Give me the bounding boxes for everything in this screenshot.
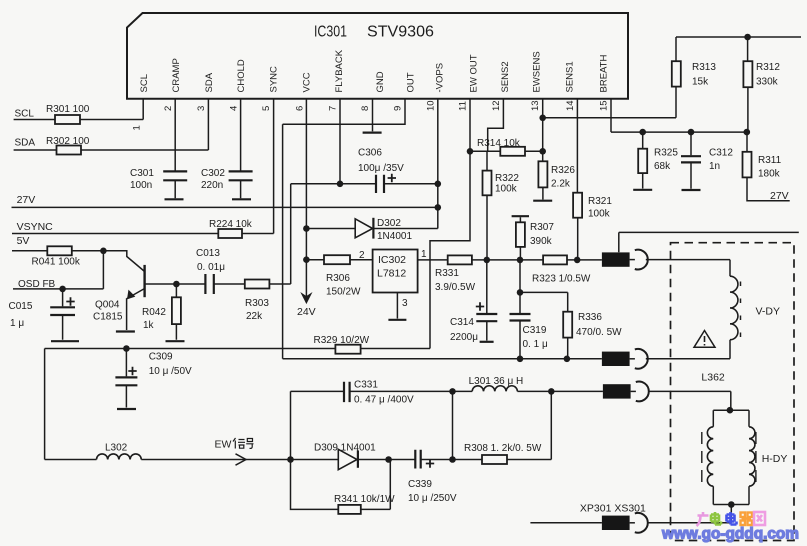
svg-text:4: 4	[229, 106, 240, 111]
svg-text:SCL: SCL	[15, 109, 35, 120]
wire SDA net with pin 3 lead	[14, 99, 209, 150]
wire R322 leads	[486, 151, 488, 260]
svg-text:BREATH: BREATH	[598, 55, 609, 93]
resistor R312	[743, 61, 780, 87]
svg-text:C301: C301	[130, 168, 154, 179]
wire connector2 to V-DY bottom	[646, 340, 730, 359]
capacitor C312	[681, 148, 733, 173]
IC IC301 STV9306 body outline	[127, 13, 628, 99]
ground for C309	[117, 408, 136, 410]
svg-text:R301 100: R301 100	[46, 104, 90, 115]
wire pin 14 SENS1 lead	[576, 99, 578, 260]
node junction R308-L301 riser top	[548, 388, 555, 395]
wire R042 leads	[175, 284, 177, 340]
node junction R307-C319	[517, 257, 524, 264]
node junction VCC-D302	[303, 225, 310, 232]
dashed box deflection yoke assembly	[671, 243, 795, 541]
node junction pin13-R314	[539, 148, 546, 155]
wire OSD FB line up to 5V node	[13, 251, 103, 289]
svg-text:R312: R312	[756, 62, 780, 73]
svg-text:D309 1N4001: D309 1N4001	[314, 443, 376, 454]
wire R313 top to R312 top rail	[676, 37, 801, 61]
svg-text:C302: C302	[201, 168, 225, 179]
wire EW signal line	[141, 391, 551, 459]
svg-text:SDA: SDA	[15, 137, 36, 148]
node junction EW drive	[287, 456, 294, 463]
svg-text:C312: C312	[709, 148, 733, 159]
svg-text:R224 10k: R224 10k	[209, 219, 253, 230]
svg-text:100μ /35V: 100μ /35V	[358, 163, 404, 174]
wire C309 leads	[125, 349, 127, 408]
connector plug-jack row 2 vertical return	[602, 349, 648, 369]
wire SCL net with pin 1 lead	[14, 99, 144, 120]
svg-text:22k: 22k	[246, 311, 263, 322]
wire R314 row pin11 to pin13	[470, 150, 543, 152]
svg-text:68k: 68k	[654, 161, 671, 172]
watermark site name glyphs	[697, 512, 766, 526]
svg-text:C309: C309	[149, 352, 173, 363]
svg-text:C331: C331	[354, 380, 378, 391]
wire R312 leads	[747, 37, 749, 132]
svg-text:1N4001: 1N4001	[377, 231, 412, 242]
node junction EWSENS-BREATH row	[539, 115, 546, 122]
node junction C319-R336 tap	[517, 289, 524, 296]
node junction C339 right	[449, 456, 456, 463]
wire base node row	[145, 283, 291, 285]
node junction C319 bottom	[517, 356, 524, 363]
svg-text:R311: R311	[758, 155, 782, 166]
inductor L302	[97, 443, 142, 460]
transistor Q2 Q004 C1815	[93, 251, 145, 330]
svg-text:27V: 27V	[17, 194, 36, 206]
svg-text:0. 1 μ: 0. 1 μ	[523, 339, 548, 350]
wire left drop to EW line	[45, 349, 97, 460]
svg-text:24V: 24V	[297, 306, 316, 318]
node junction C306 right on -VOPS line	[435, 181, 442, 188]
resistor R321	[573, 193, 612, 220]
svg-text:L7812: L7812	[377, 268, 406, 280]
svg-text:R322: R322	[495, 173, 519, 184]
svg-text:H-DY: H-DY	[762, 453, 788, 465]
inductor H-DY horizontal yoke coils	[702, 410, 788, 504]
node junction R322-C314	[484, 257, 491, 264]
ground for R326	[533, 200, 552, 202]
warning triangle	[694, 331, 715, 348]
svg-text:D302: D302	[377, 218, 401, 229]
svg-text:EW OUT: EW OUT	[469, 54, 480, 92]
svg-text:R313: R313	[692, 62, 716, 73]
svg-text:470/0. 5W: 470/0. 5W	[576, 327, 622, 338]
wire VCC to D302 anode and 27V node	[306, 228, 437, 230]
resistor R314	[477, 138, 525, 156]
wire R326 lower lead	[542, 187, 544, 199]
watermark url text	[661, 526, 799, 543]
wire IC302 output node to connector 1	[418, 259, 602, 261]
svg-text:390k: 390k	[530, 236, 553, 247]
wire EWSENS to R313 bottom	[543, 117, 676, 119]
svg-text:R308 1. 2k/0. 5W: R308 1. 2k/0. 5W	[464, 443, 542, 454]
wire C314 leads	[486, 260, 488, 341]
svg-text:R336: R336	[578, 312, 602, 323]
wire pin 6 VCC line down to 24V arrow	[305, 99, 307, 302]
wire R311 leads to 27V	[747, 132, 790, 201]
wire pin 4 CHOLD lead	[240, 99, 242, 171]
svg-text:3.9/0.5W: 3.9/0.5W	[435, 282, 476, 293]
svg-text:10 μ /50V: 10 μ /50V	[149, 366, 192, 377]
resistor R326	[538, 161, 575, 189]
svg-text:EWSENS: EWSENS	[531, 51, 542, 92]
svg-text:SYNC: SYNC	[269, 66, 280, 93]
svg-text:SCL: SCL	[139, 74, 150, 92]
svg-text:15k: 15k	[692, 77, 709, 88]
wire 27V rail	[12, 206, 438, 208]
svg-text:FLYBACK: FLYBACK	[334, 49, 345, 92]
svg-text:R341 10k/1W: R341 10k/1W	[334, 494, 395, 505]
IC301 rotated pin numbers 1-15	[132, 100, 610, 130]
resistor R306	[324, 255, 361, 297]
node junction R336 bottom	[564, 356, 571, 363]
svg-text:27V: 27V	[770, 190, 789, 202]
node junction pin7-C306	[337, 181, 344, 188]
svg-text:C015: C015	[9, 301, 33, 312]
node label EW signal	[215, 438, 254, 451]
svg-text:CRAMP: CRAMP	[171, 58, 182, 92]
svg-text:C339: C339	[408, 479, 432, 490]
svg-text:220n: 220n	[201, 180, 223, 191]
svg-text:IC301: IC301	[314, 24, 347, 41]
wire VCC to R306 to IC302 pin2	[306, 259, 372, 261]
svg-text:XP301 XS301: XP301 XS301	[580, 502, 646, 514]
ground bar for C314	[480, 341, 494, 343]
svg-text:R323 1/0.5W: R323 1/0.5W	[532, 274, 591, 285]
label L362	[701, 371, 725, 383]
node junction pin11-R314	[467, 148, 474, 155]
capacitor C015	[9, 297, 76, 329]
node label SDA	[15, 137, 36, 148]
svg-text:8: 8	[360, 106, 371, 111]
node junction C339-L301 riser top	[449, 388, 456, 395]
node label OSD FB	[18, 279, 56, 290]
resistor R336	[563, 312, 622, 338]
svg-text:R325: R325	[654, 148, 678, 159]
wire OUT rail left	[45, 348, 430, 350]
capacitor C314	[450, 302, 497, 343]
IC IC302 L7812 regulator	[359, 249, 427, 309]
resistor R341	[334, 494, 395, 514]
node label 27V right	[770, 190, 789, 202]
wire pin 10 -VOPS lead	[437, 99, 439, 229]
wire 5V rail	[12, 250, 103, 252]
svg-text:330k: 330k	[756, 77, 779, 88]
svg-text:15: 15	[599, 100, 610, 111]
svg-text:R303: R303	[245, 298, 269, 309]
wire pin 15 BREATH lead and sense rail	[611, 99, 747, 132]
resistor R041	[32, 246, 81, 267]
wire OUT to connector 2	[283, 358, 602, 360]
svg-text:5V: 5V	[17, 235, 30, 247]
ground for C301	[165, 198, 184, 200]
svg-text:R302 100: R302 100	[46, 136, 90, 147]
wire R307 leads	[519, 217, 521, 260]
wire R336 bottom lead	[567, 338, 569, 359]
svg-text:14: 14	[565, 100, 576, 111]
svg-text:-VOPS: -VOPS	[435, 63, 446, 93]
svg-text:0. 47 μ /400V: 0. 47 μ /400V	[354, 395, 414, 406]
resistor R224	[209, 219, 253, 238]
diode D302 1N4001	[355, 218, 412, 242]
resistor R322	[483, 171, 520, 196]
svg-text:10: 10	[425, 100, 436, 111]
wire pin 8 GND lead	[372, 99, 374, 132]
svg-text:L301 36 μ H: L301 36 μ H	[469, 376, 524, 387]
svg-text:OUT: OUT	[405, 72, 416, 92]
svg-text:5: 5	[261, 106, 272, 111]
wire connector1 to V-DY top	[646, 260, 730, 277]
ground for C312	[682, 189, 701, 191]
node label VSYNC	[17, 221, 54, 233]
ground for C015	[51, 340, 79, 342]
resistor R301	[46, 104, 90, 124]
node junction R325 top	[639, 129, 646, 136]
svg-text:180k: 180k	[758, 169, 781, 180]
resistor R307	[516, 222, 554, 247]
svg-text:13: 13	[530, 100, 541, 111]
svg-text:100k: 100k	[588, 209, 611, 220]
24V supply arrow	[297, 294, 316, 319]
wire riser C339 node to L301 node	[452, 391, 454, 459]
svg-text:2: 2	[163, 106, 174, 111]
svg-text:VSYNC: VSYNC	[17, 221, 54, 233]
node junction 5V collector	[100, 248, 107, 255]
svg-text:2200μ: 2200μ	[450, 332, 478, 343]
svg-text:C319: C319	[523, 325, 547, 336]
svg-text:R041 100k: R041 100k	[32, 257, 81, 268]
svg-text:R042: R042	[142, 307, 166, 318]
svg-text:C1815: C1815	[93, 312, 123, 323]
svg-text:100k: 100k	[495, 184, 518, 195]
svg-text:150/2W: 150/2W	[326, 287, 361, 298]
ground bar above R307	[512, 215, 529, 217]
svg-text:C306: C306	[358, 148, 382, 159]
ground for IC301 pin 8	[363, 132, 382, 134]
wire R303 node up to C306 node	[290, 184, 292, 284]
diode D309 1N4001	[314, 443, 376, 470]
svg-text:www.go-gddq.com: www.go-gddq.com	[661, 526, 799, 543]
resistor R325	[638, 148, 678, 174]
svg-text:L302: L302	[105, 443, 128, 454]
svg-text:0. 01μ: 0. 01μ	[197, 262, 225, 273]
connector plug-jack row 3 EW to H-DY	[603, 382, 649, 402]
svg-text:SENS2: SENS2	[500, 61, 511, 92]
svg-text:2: 2	[359, 250, 365, 261]
wire C015 lead	[62, 289, 64, 340]
ground for R325	[633, 189, 652, 191]
resistor R331	[435, 255, 476, 293]
wire R313 bottom lead	[675, 87, 678, 118]
wire XP301 line	[530, 506, 731, 523]
svg-text:3: 3	[402, 298, 408, 309]
capacitor C339	[408, 450, 457, 504]
svg-text:CHOLD: CHOLD	[236, 59, 247, 92]
svg-text:SDA: SDA	[204, 72, 215, 92]
svg-text:6: 6	[294, 106, 305, 111]
svg-text:L362: L362	[701, 371, 725, 383]
resistor R323	[532, 255, 591, 284]
wire connector3 to H-DY top	[648, 391, 731, 410]
wire pin 11 EW OUT down to R329	[430, 99, 470, 349]
svg-text:100n: 100n	[130, 180, 152, 191]
svg-text:C314: C314	[450, 317, 474, 328]
ground for Q004 emitter	[116, 330, 135, 332]
EW arrow on wire	[236, 454, 247, 465]
svg-text:R314 10k: R314 10k	[477, 138, 521, 149]
wire connector1 top riser to breath line	[619, 232, 799, 252]
node label 27V left	[17, 194, 36, 206]
node junction C312 top	[688, 129, 695, 136]
wire pin 9 OUT feed down left side	[283, 99, 405, 359]
resistor R313	[672, 61, 717, 87]
capacitor C309	[115, 352, 192, 386]
node junction R042 top	[173, 281, 180, 288]
capacitor C302	[201, 168, 253, 198]
svg-text:9: 9	[393, 106, 404, 111]
connector plug-jack row 1 vertical out	[602, 250, 648, 270]
capacitor C331	[344, 380, 414, 406]
svg-text:V-DY: V-DY	[756, 306, 781, 318]
wire C312 leads	[690, 132, 692, 189]
ground for R042	[166, 340, 185, 342]
resistor R302	[46, 136, 90, 155]
svg-text:1 μ: 1 μ	[10, 318, 24, 329]
resistor R042	[142, 297, 181, 331]
node junction H-DY bottom	[728, 501, 735, 508]
resistor R308	[464, 443, 542, 464]
wire R325 leads	[642, 132, 644, 188]
node label SCL	[15, 109, 35, 120]
node label 5V	[17, 235, 30, 247]
svg-text:SENS1: SENS1	[565, 61, 576, 92]
svg-text:R329 10/2W: R329 10/2W	[314, 335, 370, 346]
node junction VCC-R306	[303, 256, 310, 263]
wire pin 2 CRAMP lead	[174, 99, 176, 171]
svg-text:2.2k: 2.2k	[551, 179, 571, 190]
resistor R311	[743, 152, 782, 180]
connector label XP301 XS301	[580, 502, 646, 514]
capacitor C301	[130, 168, 187, 198]
resistor R329	[314, 335, 370, 354]
svg-text:R307: R307	[530, 222, 554, 233]
node junction H-DY top	[727, 407, 734, 414]
svg-text:12: 12	[491, 100, 502, 111]
svg-text:IC302: IC302	[378, 254, 406, 266]
svg-text:R306: R306	[326, 273, 350, 284]
svg-text:R331: R331	[435, 268, 459, 279]
node junction -VOPS 27V rail	[435, 204, 442, 211]
node junction C015 tap	[59, 286, 66, 293]
svg-text:1k: 1k	[143, 320, 155, 331]
node junction D309 cathode	[385, 456, 392, 463]
wire C331 to L301 to connector 3	[350, 390, 603, 392]
node junction R312 top	[744, 34, 751, 41]
node junction R321 bottom	[574, 257, 581, 264]
IC301 title label	[314, 24, 434, 41]
wire pin 13 EWSENS lead	[542, 99, 544, 162]
capacitor C306	[358, 148, 404, 194]
svg-text:3: 3	[196, 106, 207, 111]
ground for C302	[232, 198, 251, 200]
ground for IC302 pin 3	[388, 319, 406, 321]
inductor V-DY vertical yoke coil	[730, 276, 780, 340]
wire pin 12 SENS2 jog	[488, 99, 504, 152]
wire C319 leads and R336 top branch	[520, 260, 568, 359]
node junction R311-R312	[744, 129, 751, 136]
svg-text:VCC: VCC	[302, 72, 313, 92]
svg-text:GND: GND	[375, 71, 386, 92]
wire C306 node from pin 7 FLYBACK	[291, 99, 438, 184]
svg-text:1n: 1n	[709, 161, 720, 172]
capacitor C319	[510, 314, 548, 350]
svg-text:Q004: Q004	[95, 300, 120, 311]
node junction C309 top	[123, 345, 130, 352]
capacitor C013	[196, 248, 225, 294]
IC301 rotated pin name labels	[139, 49, 610, 92]
wire R341 parallel loop	[291, 460, 391, 510]
svg-text:STV9306: STV9306	[367, 24, 434, 41]
wire EW drive riser to C331 row	[291, 391, 344, 459]
svg-text:1: 1	[421, 249, 427, 260]
wire VSYNC to pin 5 SYNC	[12, 99, 274, 234]
svg-text:EW: EW	[215, 439, 232, 451]
resistor R303	[245, 280, 270, 323]
svg-text:R326: R326	[551, 165, 575, 176]
svg-text:10 μ /250V: 10 μ /250V	[408, 493, 457, 504]
svg-text:1: 1	[132, 125, 143, 130]
svg-text:C013: C013	[196, 248, 220, 259]
svg-text:11: 11	[458, 101, 469, 111]
connector XP301 XS301	[602, 513, 648, 533]
svg-text:R321: R321	[588, 196, 612, 207]
svg-text:7: 7	[328, 106, 339, 111]
inductor L301	[469, 376, 524, 391]
wire IC302 pin3 ground lead	[396, 292, 398, 318]
